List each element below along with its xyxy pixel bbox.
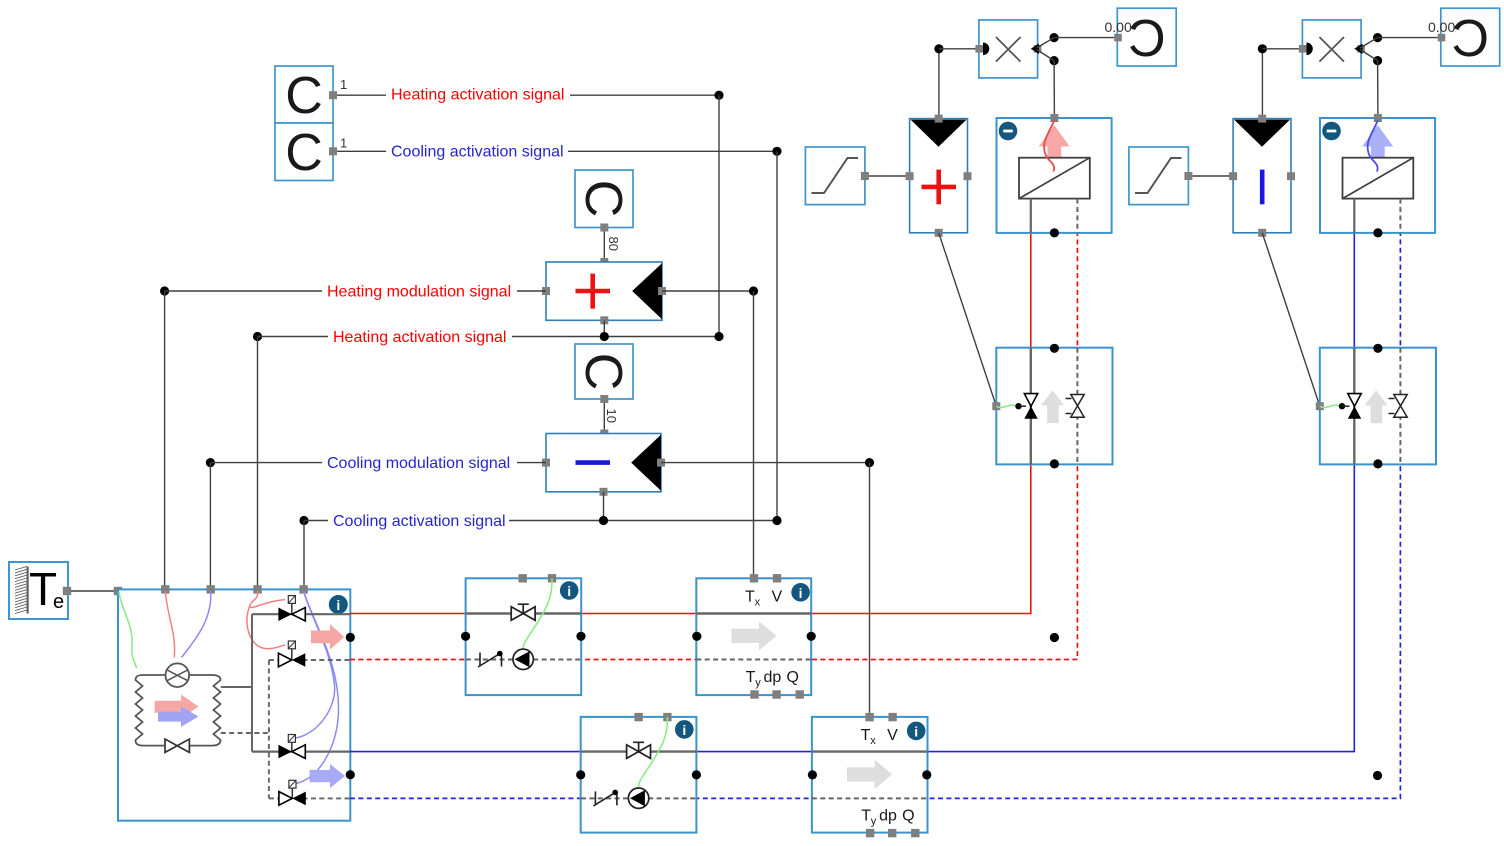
svg-text:V: V bbox=[887, 727, 898, 744]
wire cooling modulation vertical to heat pump bbox=[209, 463, 211, 589]
heat flow arrow blue (coil) bbox=[158, 706, 199, 727]
heat flow arrow red (coil) bbox=[155, 695, 199, 719]
svg-text:Cooling modulation signal: Cooling modulation signal bbox=[327, 455, 510, 472]
pin subtract bottom bbox=[600, 488, 608, 496]
heating return pipe in unit bbox=[269, 659, 350, 661]
green sensor wire (Te) bbox=[119, 592, 137, 668]
wire left to label bbox=[165, 290, 322, 292]
red control wire to valve V2 bbox=[247, 605, 285, 649]
node heating loop mid bbox=[1050, 633, 1059, 642]
wire node to valve stem (cooling) bbox=[1342, 405, 1350, 407]
node green wire (heating valve) bbox=[1015, 403, 1021, 409]
check valve (heating) bbox=[1066, 395, 1085, 418]
wire label to corner bbox=[512, 336, 719, 338]
constant block C5 (heating curve 0.00) bbox=[1117, 8, 1176, 68]
pin heat pump heating activation bbox=[253, 585, 261, 593]
svg-text:x: x bbox=[870, 735, 876, 747]
svg-text:C: C bbox=[285, 67, 323, 125]
wire fork to multiply right (cooling) bbox=[1360, 38, 1378, 61]
green control wire (heating valve) bbox=[996, 405, 1017, 407]
blue control wire to valve V4 bbox=[296, 591, 339, 784]
svg-text:T: T bbox=[745, 589, 755, 606]
wire C3 to add block bbox=[603, 232, 605, 263]
svg-text:0.00: 0.00 bbox=[1428, 19, 1455, 35]
wire constant to fork (cooling) bbox=[1378, 37, 1438, 39]
expansion valve bbox=[165, 739, 189, 752]
balancing valve (heating pump block) bbox=[511, 604, 535, 620]
node cooling coil left bbox=[808, 770, 817, 779]
supply pipe through cooling pump block bbox=[581, 750, 696, 752]
wire vertical subtract top feed bbox=[1261, 49, 1263, 115]
svg-text:i: i bbox=[914, 723, 918, 739]
pin heating pump control bbox=[548, 574, 556, 582]
input marker multiply left (heating) bbox=[983, 43, 989, 56]
wire C2 to label bbox=[337, 150, 386, 152]
return pipe in valve unit dashed (cooling) bbox=[1399, 348, 1401, 465]
pin C1 output bbox=[329, 91, 337, 99]
wire label to corner bbox=[509, 520, 777, 522]
svg-text:e: e bbox=[53, 591, 64, 613]
cooling coil block TxV bbox=[812, 717, 928, 833]
pin heating pump aux bbox=[519, 574, 527, 582]
pin vertical subtract left bbox=[1229, 172, 1237, 180]
pump P2 (cooling) bbox=[628, 788, 648, 808]
supply pipe in valve unit (heating) bbox=[1030, 348, 1032, 465]
pin limiter output (heating) bbox=[861, 172, 869, 180]
info badge heating pump bbox=[560, 581, 579, 600]
wire add output bbox=[662, 290, 754, 292]
return pipe through cooling coil block (dashed) bbox=[812, 797, 928, 799]
svg-text:C: C bbox=[1128, 10, 1166, 68]
balancing valve (cooling pump block) bbox=[627, 742, 651, 758]
constant block C3 (value 80) bbox=[574, 170, 633, 228]
wire add bottom to valve unit (heating) bbox=[939, 233, 997, 406]
node multiply left input (cooling) bbox=[1258, 44, 1267, 53]
pin C3 output bbox=[600, 224, 608, 232]
node cooling activation mid-left bbox=[299, 516, 308, 525]
node cooling pump left bbox=[576, 770, 585, 779]
node subtract bottom junction bbox=[599, 516, 608, 525]
blue squiggle wire (cooling radiator) bbox=[1368, 121, 1378, 172]
svg-text:T: T bbox=[746, 669, 756, 686]
constant block C6 (cooling curve 0.00) bbox=[1441, 8, 1500, 68]
radiator block (cooling emission) bbox=[1320, 118, 1435, 233]
heating pump block bbox=[466, 578, 582, 695]
heating return pipe (red dashed) bbox=[350, 233, 1077, 660]
return pipe through heating coil block (dashed) bbox=[696, 659, 811, 661]
svg-text:Heating modulation signal: Heating modulation signal bbox=[327, 283, 511, 300]
input marker multiply right (heating) bbox=[1031, 44, 1039, 55]
heating supply pipe (red) bbox=[350, 233, 1031, 614]
wire constant to fork (heating) bbox=[1054, 37, 1114, 39]
wire add bottom to net bbox=[603, 320, 605, 336]
pin heat pump Te input bbox=[114, 587, 122, 595]
node multiply right upper (cooling) bbox=[1373, 33, 1382, 42]
wire cooling activation vertical bbox=[776, 151, 778, 520]
pin heating coil input V bbox=[773, 574, 781, 582]
minus badge (cooling radiator) bbox=[1322, 122, 1341, 141]
flow arrow (heating coil) bbox=[731, 621, 776, 650]
node green wire (cooling valve) bbox=[1339, 403, 1345, 409]
pin heat pump heating modulation bbox=[161, 585, 169, 593]
heat pump unit block bbox=[118, 589, 350, 820]
svg-text:10: 10 bbox=[604, 409, 619, 423]
svg-text:Q: Q bbox=[787, 669, 799, 686]
pin cooling coil dp bbox=[888, 829, 896, 837]
pin heating coil input Tx bbox=[750, 574, 758, 582]
add block U1 (heating: modulation + 80) bbox=[546, 262, 662, 320]
red squiggle wire (heating radiator) bbox=[1044, 121, 1054, 172]
cooling supply pipe in unit bbox=[252, 750, 350, 752]
flow arrow (cooling valve unit) bbox=[1365, 390, 1388, 423]
pin vertical add left bbox=[906, 172, 914, 180]
svg-text:1: 1 bbox=[340, 136, 347, 151]
wire to multiply left input (cooling) bbox=[1262, 48, 1302, 50]
ambient temperature block Te bbox=[9, 562, 68, 619]
pin heating coil Ty bbox=[750, 690, 758, 698]
svg-text:y: y bbox=[871, 816, 877, 828]
pin subtract top bbox=[600, 430, 608, 438]
pin heating coil dp bbox=[772, 690, 780, 698]
wire label to add block bbox=[517, 290, 546, 292]
wire label to corner bbox=[568, 150, 777, 152]
return manifold dashed vertical bbox=[268, 660, 270, 798]
radiator body (heating) bbox=[1019, 158, 1090, 199]
pin limiter output (cooling) bbox=[1184, 172, 1192, 180]
node cooling loop mid bbox=[1373, 771, 1382, 780]
node heat pump cooling port bbox=[346, 770, 355, 779]
node multiply right upper (heating) bbox=[1050, 33, 1059, 42]
pump P1 (heating) bbox=[513, 649, 533, 669]
wire left to label bbox=[210, 462, 322, 464]
return pipe through cooling pump block (dashed) bbox=[581, 797, 696, 799]
pin add top bbox=[600, 258, 608, 266]
pin vertical subtract bottom bbox=[1258, 229, 1266, 237]
wire C1 to label bbox=[337, 94, 386, 96]
svg-text:Cooling activation signal: Cooling activation signal bbox=[333, 513, 506, 530]
svg-text:y: y bbox=[755, 677, 761, 689]
svg-text:i: i bbox=[567, 583, 571, 599]
heating coil block TxV bbox=[696, 578, 811, 695]
pin C2 output bbox=[329, 147, 337, 155]
pin heat pump cooling activation bbox=[299, 585, 307, 593]
radiator supply stub (heating) bbox=[1030, 199, 1032, 233]
input marker multiply left (cooling) bbox=[1307, 43, 1313, 56]
supply pipe through cooling coil block bbox=[812, 750, 928, 752]
pin Te output bbox=[63, 587, 71, 595]
flow arrow (cooling coil) bbox=[847, 760, 892, 789]
node valve unit bottom (cooling) bbox=[1373, 459, 1382, 468]
svg-text:C: C bbox=[574, 353, 632, 391]
label Tx V (heating coil) bbox=[745, 589, 783, 609]
pin multiply left (heating) bbox=[975, 45, 983, 53]
node heating activation mid-right bbox=[714, 332, 723, 341]
pin valve unit control (cooling) bbox=[1316, 402, 1324, 410]
node multiply right lower (heating) bbox=[1050, 56, 1059, 65]
multiply block (cooling) bbox=[1302, 20, 1361, 78]
pin vertical add top bbox=[935, 115, 943, 123]
valve V1 heating supply bbox=[278, 596, 305, 621]
radiator body (cooling) bbox=[1343, 158, 1414, 199]
blue control wire to valve V3 bbox=[296, 591, 335, 738]
multiply block (heating) bbox=[979, 20, 1038, 78]
flow switch symbol (cooling) bbox=[593, 791, 617, 806]
pin cooling coil Q bbox=[911, 829, 919, 837]
svg-text:C: C bbox=[1452, 10, 1490, 68]
pin vertical add right bbox=[964, 172, 972, 180]
node valve unit bottom (heating) bbox=[1050, 459, 1059, 468]
pin add left bbox=[542, 287, 550, 295]
node flow switch (cooling) bbox=[612, 790, 618, 796]
pin subtract right bbox=[657, 459, 665, 467]
svg-text:C: C bbox=[285, 124, 323, 182]
wire add output down to heating unit bbox=[753, 291, 755, 578]
supply pipe through heating pump block bbox=[466, 612, 581, 614]
wire vertical add top feed bbox=[938, 49, 940, 115]
cooling output arrow (unit) bbox=[310, 764, 345, 788]
minus badge (heating radiator) bbox=[999, 122, 1018, 141]
node heat pump heating port bbox=[346, 633, 355, 642]
info badge cooling coil bbox=[907, 722, 926, 741]
wire C4 to subtract block bbox=[603, 403, 605, 434]
constant block C1 (heating activation = 1) bbox=[275, 66, 333, 125]
info badge heat pump bbox=[329, 595, 348, 614]
node heating activation corner bbox=[714, 91, 723, 100]
green control wire (cooling valve) bbox=[1320, 405, 1341, 407]
wire subtract output down to cooling unit bbox=[869, 463, 871, 717]
wire subtract bottom to valve unit (cooling) bbox=[1262, 233, 1320, 406]
svg-text:dp: dp bbox=[879, 808, 897, 825]
control valve (cooling) bbox=[1348, 394, 1361, 419]
vertical subtract block (cooling setpoint) bbox=[1233, 119, 1291, 233]
pin subtract left bbox=[542, 459, 550, 467]
pin C6 output bbox=[1438, 34, 1446, 42]
node radiator bottom (heating) bbox=[1050, 228, 1059, 237]
node flow switch (heating) bbox=[497, 651, 503, 657]
node heating pump left bbox=[461, 632, 470, 641]
node add output corner bbox=[749, 286, 758, 295]
limiter block (cooling) bbox=[1129, 147, 1189, 205]
cooling pump block bbox=[581, 717, 697, 833]
pin vertical add bottom bbox=[935, 229, 943, 237]
node subtract output corner bbox=[865, 458, 874, 467]
radiator return stub dashed (cooling) bbox=[1399, 199, 1401, 233]
pin vertical subtract top bbox=[1258, 115, 1266, 123]
svg-text:Q: Q bbox=[902, 808, 914, 825]
red control wire to valve V1 bbox=[250, 591, 285, 608]
pin cooling coil input V bbox=[888, 713, 896, 721]
control valve (heating) bbox=[1024, 394, 1037, 419]
wire limiter to add block (heating) bbox=[869, 175, 910, 177]
pin C5 output bbox=[1114, 34, 1122, 42]
node cooling activation mid-right bbox=[772, 516, 781, 525]
refrigerant coil loop bbox=[136, 675, 221, 746]
pin add bottom bbox=[600, 316, 608, 324]
pin multiply left (cooling) bbox=[1299, 45, 1307, 53]
pin C4 output bbox=[600, 395, 608, 403]
label Ty dp Q (heating coil) bbox=[746, 669, 799, 689]
wire heating activation vertical bbox=[718, 95, 720, 336]
cooling supply pipe (blue) bbox=[350, 234, 1354, 752]
check valve (cooling) bbox=[1389, 395, 1408, 418]
supply manifold vertical bbox=[251, 614, 253, 751]
info badge heating coil bbox=[791, 583, 810, 602]
svg-text:T: T bbox=[861, 727, 871, 744]
wire left to label bbox=[304, 520, 328, 522]
subtract block U2 (cooling: 10 - modulation) bbox=[546, 434, 661, 492]
label Tx V (cooling coil) bbox=[861, 727, 899, 747]
label Ty dp Q (cooling coil) bbox=[861, 808, 914, 828]
heat emission arrow (pink) bbox=[1039, 125, 1070, 158]
radiator return stub dashed (heating) bbox=[1076, 199, 1078, 233]
pin cooling pump control bbox=[663, 713, 671, 721]
wire heating modulation vertical to heat pump bbox=[164, 291, 166, 589]
wire heating activation down to heat pump bbox=[257, 337, 259, 590]
supply pipe through heating coil block bbox=[696, 612, 811, 614]
coil return dashed stub bbox=[221, 732, 269, 734]
pin heating coil Q bbox=[796, 690, 804, 698]
flow switch symbol (heating) bbox=[478, 653, 502, 668]
valve unit block (cooling) bbox=[1320, 348, 1436, 465]
node heating activation mid-left bbox=[253, 332, 262, 341]
wire limiter to subtract block (cooling) bbox=[1192, 175, 1233, 177]
radiator block (heating emission) bbox=[997, 118, 1112, 233]
svg-text:0.00: 0.00 bbox=[1105, 19, 1132, 35]
node add bottom junction bbox=[600, 332, 609, 341]
node cooling modulation left bbox=[206, 458, 215, 467]
svg-text:i: i bbox=[336, 597, 340, 613]
pin valve unit control (heating) bbox=[992, 402, 1000, 410]
red modulation wire to compressor bbox=[165, 591, 174, 658]
pin vertical subtract right bbox=[1287, 172, 1295, 180]
wire label to corner bbox=[570, 94, 719, 96]
green control wire (cooling pump) bbox=[639, 717, 668, 787]
return pipe through heating pump block (dashed) bbox=[466, 659, 581, 661]
node cooling activation corner bbox=[772, 147, 781, 156]
node radiator bottom (cooling) bbox=[1373, 228, 1382, 237]
pin radiator control (cooling) bbox=[1374, 114, 1382, 122]
svg-text:i: i bbox=[799, 585, 803, 601]
node heating pump right bbox=[576, 632, 585, 641]
cooling return pipe (blue dashed) bbox=[350, 234, 1400, 799]
node cooling coil right bbox=[922, 770, 931, 779]
pin multiply right (cooling) bbox=[1357, 45, 1365, 53]
svg-text:1: 1 bbox=[340, 77, 347, 92]
heating supply pipe in unit bbox=[252, 613, 350, 615]
return pipe in valve unit dashed (heating) bbox=[1076, 348, 1078, 465]
limiter block (heating) bbox=[805, 147, 865, 205]
flow arrow (heating valve unit) bbox=[1041, 390, 1064, 423]
compressor bbox=[166, 663, 190, 687]
wire left to label bbox=[258, 336, 329, 338]
wire Te to heat pump bbox=[71, 590, 114, 592]
heat emission arrow (light blue) bbox=[1362, 125, 1393, 158]
pin heat pump cooling modulation bbox=[207, 585, 215, 593]
supply pipe in valve unit (cooling) bbox=[1353, 348, 1355, 465]
node multiply left input (heating) bbox=[934, 44, 943, 53]
pin radiator control (heating) bbox=[1050, 114, 1058, 122]
valve unit block (heating) bbox=[996, 348, 1112, 465]
node heating coil right bbox=[807, 632, 816, 641]
info badge cooling pump bbox=[675, 720, 694, 739]
svg-text:V: V bbox=[772, 589, 783, 606]
constant block C2 (cooling activation = 1) bbox=[275, 123, 333, 182]
svg-text:Heating activation signal: Heating activation signal bbox=[333, 329, 506, 346]
node cooling pump right bbox=[692, 770, 701, 779]
heating output arrow (unit) bbox=[311, 624, 344, 650]
pin cooling pump aux bbox=[634, 713, 642, 721]
pin cooling coil input Tx bbox=[865, 713, 873, 721]
wire node to valve stem (heating) bbox=[1019, 405, 1027, 407]
green control wire (heating pump) bbox=[523, 579, 552, 649]
pin cooling coil Ty bbox=[866, 829, 874, 837]
pin add right bbox=[658, 287, 666, 295]
wire subtract output bbox=[661, 462, 870, 464]
node heating modulation left bbox=[160, 286, 169, 295]
wire label to subtract block bbox=[517, 462, 546, 464]
node valve unit top (heating) bbox=[1050, 344, 1059, 353]
svg-text:C: C bbox=[574, 180, 632, 218]
svg-text:80: 80 bbox=[606, 237, 621, 251]
node multiply right lower (cooling) bbox=[1373, 56, 1382, 65]
blue modulation wire to compressor bbox=[182, 591, 211, 658]
wire fork to multiply right (heating) bbox=[1037, 38, 1055, 61]
node heating coil left bbox=[692, 632, 701, 641]
valve V2 heating return bbox=[278, 641, 305, 667]
svg-text:dp: dp bbox=[764, 669, 782, 686]
wire subtract bottom to net bbox=[603, 492, 605, 521]
valve V4 cooling return bbox=[279, 780, 306, 805]
pipe coil to manifold bbox=[221, 686, 252, 688]
pin multiply right (heating) bbox=[1034, 45, 1042, 53]
wire fork down to radiator (cooling) bbox=[1377, 61, 1379, 115]
wire to multiply left input (heating) bbox=[939, 48, 979, 50]
valve V3 cooling supply bbox=[278, 735, 305, 759]
svg-text:T: T bbox=[861, 808, 871, 825]
svg-text:Heating activation signal: Heating activation signal bbox=[391, 86, 564, 103]
svg-text:x: x bbox=[755, 597, 761, 609]
constant block C4 (value 10) bbox=[574, 344, 633, 399]
radiator supply stub (cooling) bbox=[1353, 199, 1355, 233]
vertical add block (heating setpoint) bbox=[910, 119, 968, 233]
wire fork down to radiator (heating) bbox=[1053, 61, 1055, 115]
svg-text:i: i bbox=[682, 722, 686, 738]
wire cooling activation down to heat pump bbox=[303, 521, 305, 590]
cooling return pipe in unit bbox=[269, 797, 350, 799]
node valve unit top (cooling) bbox=[1373, 344, 1382, 353]
input marker multiply right (cooling) bbox=[1354, 44, 1362, 55]
svg-text:Cooling activation signal: Cooling activation signal bbox=[391, 144, 564, 161]
